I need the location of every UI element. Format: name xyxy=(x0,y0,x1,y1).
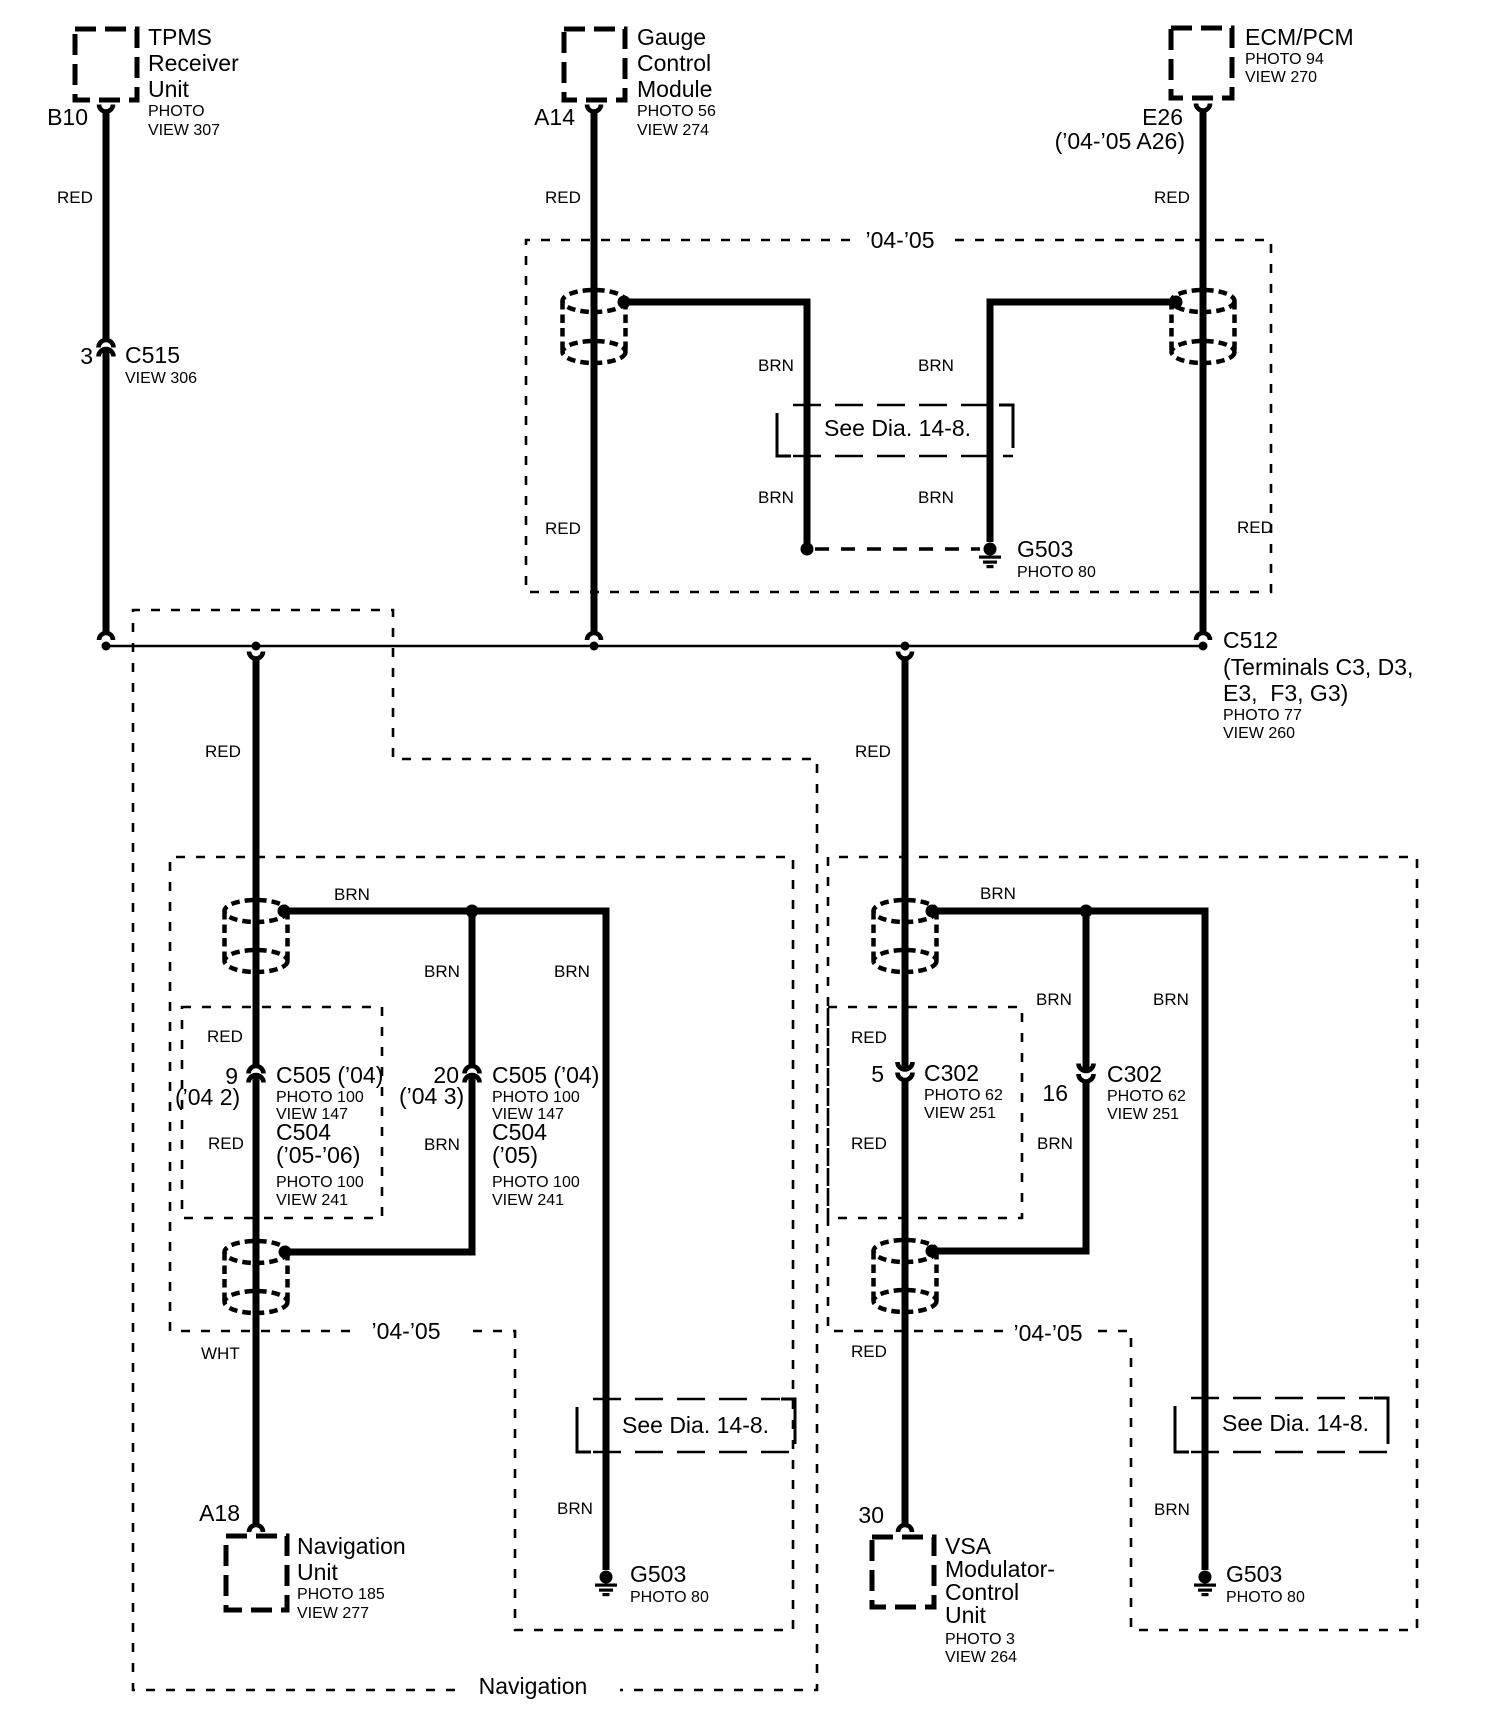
wire RED VSA branch down to C302 xyxy=(902,658,909,1069)
svg-text:PHOTO 100: PHOTO 100 xyxy=(492,1089,580,1106)
svg-text:G503: G503 xyxy=(1226,1561,1282,1587)
wire BRN from ECM cylinder left and down to ground xyxy=(990,302,1176,542)
svg-text:VIEW 270: VIEW 270 xyxy=(1245,69,1317,86)
wire BRN down to C505 pin 20 xyxy=(469,911,476,1067)
svg-text:BRN: BRN xyxy=(918,488,954,507)
component TPMS Receiver Unit (dashed box) xyxy=(75,29,137,100)
wire RED nav branch down to C505 xyxy=(253,658,260,1067)
svg-text:VIEW 251: VIEW 251 xyxy=(1107,1106,1179,1123)
svg-text:VIEW 277: VIEW 277 xyxy=(297,1605,369,1622)
svg-text:(’04 3): (’04 3) xyxy=(399,1083,464,1109)
svg-text:C515: C515 xyxy=(125,342,180,368)
junction dot on lower nav cylinder xyxy=(279,1246,292,1259)
svg-text:BRN: BRN xyxy=(1153,990,1189,1009)
svg-text:Control: Control xyxy=(637,50,711,76)
svg-text:(’04 2): (’04 2) xyxy=(175,1084,240,1110)
svg-text:G503: G503 xyxy=(630,1561,686,1587)
dashed region box Navigation xyxy=(133,610,817,1690)
svg-text:(’05-’06): (’05-’06) xyxy=(276,1142,360,1168)
svg-text:BRN: BRN xyxy=(554,962,590,981)
svg-text:VIEW 306: VIEW 306 xyxy=(125,370,197,387)
wire RED from E26 down to bus xyxy=(1200,111,1207,632)
svg-text:ECM/PCM: ECM/PCM xyxy=(1245,24,1354,50)
svg-text:A14: A14 xyxy=(534,104,575,130)
svg-text:(’04-’05 A26): (’04-’05 A26) xyxy=(1055,128,1185,154)
See Dia. 14-8. box (lower right) xyxy=(1175,1398,1388,1452)
junction dots on bus xyxy=(102,642,111,651)
connector cup below bus (VSA branch) xyxy=(898,652,912,659)
svg-text:VIEW 251: VIEW 251 xyxy=(924,1105,996,1122)
connector cap at bus left end xyxy=(99,633,113,640)
svg-text:RED: RED xyxy=(851,1028,887,1047)
svg-text:VIEW 241: VIEW 241 xyxy=(492,1192,564,1209)
svg-text:C302: C302 xyxy=(924,1060,979,1086)
svg-text:PHOTO 80: PHOTO 80 xyxy=(630,1589,709,1606)
svg-text:PHOTO 100: PHOTO 100 xyxy=(276,1174,364,1191)
svg-text:C302: C302 xyxy=(1107,1061,1162,1087)
junction dot on ECM cylinder xyxy=(1170,296,1183,309)
svg-text:BRN: BRN xyxy=(334,885,370,904)
bus wire C512 (thin horizontal) xyxy=(105,645,1203,648)
svg-text:PHOTO 80: PHOTO 80 xyxy=(1226,1589,1305,1606)
svg-text:BRN: BRN xyxy=(424,962,460,981)
See Dia. 14-8. box (top) xyxy=(777,405,1013,456)
svg-text:WHT: WHT xyxy=(201,1344,240,1363)
wire BRN from VSA cylinder right then down to right G503 xyxy=(932,911,1205,1570)
svg-text:G503: G503 xyxy=(1017,536,1073,562)
svg-text:BRN: BRN xyxy=(1037,1134,1073,1153)
svg-text:BRN: BRN xyxy=(980,884,1016,903)
ground G503 (lower left) xyxy=(595,1571,617,1597)
svg-text:Navigation: Navigation xyxy=(297,1533,406,1559)
wire BRN from nav cylinder right then down to left G503 xyxy=(284,911,606,1570)
svg-text:BRN: BRN xyxy=(1154,1500,1190,1519)
svg-text:’04-’05: ’04-’05 xyxy=(1013,1320,1082,1346)
svg-text:RED: RED xyxy=(205,742,241,761)
svg-text:RED: RED xyxy=(207,1027,243,1046)
shield cylinder on nav wire (upper) xyxy=(225,900,288,972)
svg-text:RED: RED xyxy=(1237,518,1273,537)
svg-text:Unit: Unit xyxy=(148,76,190,102)
svg-text:VIEW 307: VIEW 307 xyxy=(148,122,220,139)
svg-text:RED: RED xyxy=(545,188,581,207)
svg-text:VIEW 274: VIEW 274 xyxy=(637,122,709,139)
svg-text:BRN: BRN xyxy=(1036,990,1072,1009)
svg-text:BRN: BRN xyxy=(758,488,794,507)
svg-text:PHOTO 56: PHOTO 56 xyxy=(637,103,716,120)
svg-text:See Dia. 14-8.: See Dia. 14-8. xyxy=(1222,1410,1369,1436)
inner dashed box (right connector labels) xyxy=(828,1007,1022,1218)
svg-text:BRN: BRN xyxy=(424,1135,460,1154)
svg-text:TPMS: TPMS xyxy=(148,24,212,50)
connector cup at E26 xyxy=(1196,104,1210,111)
connector cap at A18 xyxy=(249,1525,263,1532)
connector cap at pin 30 xyxy=(898,1525,912,1532)
svg-text:16: 16 xyxy=(1042,1080,1068,1106)
svg-text:See Dia. 14-8.: See Dia. 14-8. xyxy=(622,1412,769,1438)
svg-text:(Terminals C3, D3,: (Terminals C3, D3, xyxy=(1223,654,1413,680)
svg-text:VIEW 260: VIEW 260 xyxy=(1223,725,1295,742)
ground G503 (top section) xyxy=(979,543,1001,569)
svg-text:30: 30 xyxy=(858,1502,884,1528)
svg-text:PHOTO 3: PHOTO 3 xyxy=(945,1631,1015,1648)
svg-text:PHOTO 100: PHOTO 100 xyxy=(492,1174,580,1191)
wire RED from A14 down to bus xyxy=(591,112,598,632)
dashed region box '04-'05 (left) xyxy=(170,857,793,1630)
component ECM/PCM (dashed box) xyxy=(1171,28,1232,98)
dashed ground wire xyxy=(815,547,980,551)
svg-text:BRN: BRN xyxy=(557,1499,593,1518)
wire RED from TPMS B10 down to C515 xyxy=(103,112,110,342)
shield cylinder on ECM wire xyxy=(1172,290,1235,363)
svg-text:See Dia. 14-8.: See Dia. 14-8. xyxy=(824,415,971,441)
connector cap at bus (gauge wire) xyxy=(587,633,601,640)
connector cap at bus (ECM wire) xyxy=(1196,633,1210,640)
junction dot on nav cylinder xyxy=(278,905,291,918)
svg-text:B10: B10 xyxy=(47,104,88,130)
svg-text:C505 (’04): C505 (’04) xyxy=(492,1062,599,1088)
component VSA Modulator-Control Unit (dashed box) xyxy=(872,1537,934,1607)
svg-text:PHOTO 62: PHOTO 62 xyxy=(1107,1088,1186,1105)
svg-text:A18: A18 xyxy=(199,1500,240,1526)
svg-text:C512: C512 xyxy=(1223,627,1278,653)
svg-text:RED: RED xyxy=(545,519,581,538)
svg-text:RED: RED xyxy=(851,1342,887,1361)
junction dot above ground run xyxy=(801,543,814,556)
wire BRN from pin 16 down then left to lower VSA cylinder xyxy=(936,1082,1086,1251)
junction dot on gauge cylinder xyxy=(618,296,631,309)
svg-text:Gauge: Gauge xyxy=(637,24,706,50)
shield cylinder on nav wire (lower) xyxy=(225,1241,288,1313)
junction dot on VSA cylinder xyxy=(926,905,939,918)
svg-text:PHOTO 62: PHOTO 62 xyxy=(924,1087,1003,1104)
svg-text:RED: RED xyxy=(208,1134,244,1153)
shield cylinder on gauge wire xyxy=(563,290,626,363)
wire BRN from gauge cylinder right and down to See Dia box xyxy=(624,302,807,545)
dashed region box '04-'05 (right) xyxy=(828,857,1417,1630)
junction dot on lower VSA cylinder xyxy=(926,1245,939,1258)
wire BRN down to C302 pin 16 xyxy=(1083,911,1090,1071)
svg-text:VIEW 241: VIEW 241 xyxy=(276,1192,348,1209)
svg-text:PHOTO 77: PHOTO 77 xyxy=(1223,707,1302,724)
svg-text:PHOTO 185: PHOTO 185 xyxy=(297,1586,385,1603)
svg-text:PHOTO 100: PHOTO 100 xyxy=(276,1089,364,1106)
component Navigation Unit (dashed box) xyxy=(226,1536,287,1610)
wire RED from C505 pin 9 down through cylinder to A18 xyxy=(253,1077,260,1524)
svg-text:E3, F3, G3): E3, F3, G3) xyxy=(1223,680,1348,706)
svg-text:Navigation: Navigation xyxy=(479,1673,588,1699)
svg-text:PHOTO 80: PHOTO 80 xyxy=(1017,564,1096,581)
svg-text:PHOTO: PHOTO xyxy=(148,103,205,120)
svg-text:’04-’05: ’04-’05 xyxy=(865,227,934,253)
svg-text:’04-’05: ’04-’05 xyxy=(371,1318,440,1344)
svg-text:Module: Module xyxy=(637,76,712,102)
component Gauge Control Module (dashed box) xyxy=(564,29,625,100)
See Dia. 14-8. box (lower left) xyxy=(577,1399,795,1452)
svg-text:RED: RED xyxy=(1154,188,1190,207)
wire BRN from pin 20 down then left to lower nav cylinder xyxy=(288,1077,472,1252)
svg-text:C505 (’04): C505 (’04) xyxy=(276,1062,383,1088)
svg-text:Unit: Unit xyxy=(297,1559,339,1585)
svg-text:5: 5 xyxy=(871,1061,884,1087)
connector cup at A14 xyxy=(587,105,601,112)
svg-text:E26: E26 xyxy=(1142,104,1183,130)
inner dashed box (left connector labels) xyxy=(182,1007,382,1218)
shield cylinder on VSA wire (upper) xyxy=(874,900,937,972)
svg-text:BRN: BRN xyxy=(918,356,954,375)
svg-text:Unit: Unit xyxy=(945,1602,987,1628)
svg-text:BRN: BRN xyxy=(758,356,794,375)
svg-text:Receiver: Receiver xyxy=(148,50,239,76)
svg-text:RED: RED xyxy=(57,188,93,207)
dashed region box '04-'05 (top) xyxy=(526,240,1271,592)
wire RED from C302 pin 5 down through cylinder to pin 30 xyxy=(902,1080,909,1524)
svg-text:VIEW 264: VIEW 264 xyxy=(945,1649,1017,1666)
svg-text:(’05): (’05) xyxy=(492,1142,538,1168)
junction dot BRN split xyxy=(466,905,479,918)
connector cup at B10 xyxy=(99,105,113,112)
shield cylinder on VSA wire (lower) xyxy=(874,1240,937,1312)
svg-text:RED: RED xyxy=(851,1134,887,1153)
svg-text:PHOTO 94: PHOTO 94 xyxy=(1245,51,1324,68)
connector cup below bus (nav branch) xyxy=(249,652,263,659)
ground G503 (lower right) xyxy=(1194,1571,1216,1597)
junction dot BRN split right xyxy=(1080,905,1093,918)
svg-text:3: 3 xyxy=(80,343,93,369)
svg-text:RED: RED xyxy=(855,742,891,761)
wire RED from C515 down to bus xyxy=(103,351,110,632)
